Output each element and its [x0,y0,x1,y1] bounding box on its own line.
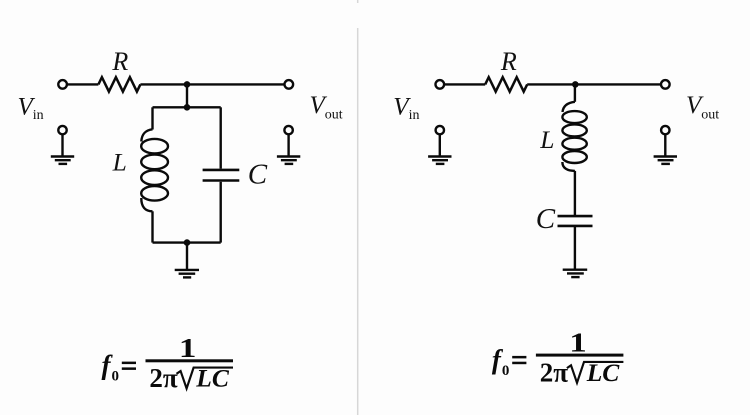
svg-text:0: 0 [502,363,510,379]
wire input to resistor (right) [445,83,486,85]
svg-text:C: C [536,203,556,235]
wire tank right vertical bottom [219,182,221,243]
wire tank bottom rail [153,241,221,243]
formula radical sign (left) [177,368,234,389]
terminal Vout right (open circle) [661,80,670,89]
node A junction dot (top) [184,81,191,88]
formula equals (right) [512,356,526,364]
svg-text:C: C [248,158,268,190]
wire node D down to inductor [574,84,576,101]
wire input to resistor [67,83,98,85]
svg-text:LC: LC [586,358,621,387]
svg-text:2π: 2π [540,357,569,387]
svg-text:LC: LC [195,364,230,393]
wire resistor to output terminal (right) [527,83,661,85]
inductor L (right, 4 loops) [562,102,586,171]
wire tank left vertical top [151,107,153,129]
node D junction dot (right circuit) [572,81,579,88]
svg-text:L: L [112,147,127,176]
node C junction dot (tank bottom) [184,239,191,246]
wire tank left vertical bottom [151,211,153,242]
formula fraction bar (right) [536,354,624,357]
capacitor C (left) plates [203,170,240,181]
ground (below tank) [175,270,199,278]
ground (below series LC) [563,270,588,277]
wire resistor to output terminal [140,83,284,85]
wire tank top rail [153,106,221,108]
terminal Vin left (open circle) [58,80,67,89]
svg-text:1: 1 [569,327,587,357]
resistor R (left) zigzag [98,77,140,91]
formula equals (left) [122,362,136,370]
svg-text:L: L [539,125,554,154]
ground (below Vin left, with reference circle) [51,126,74,164]
svg-text:2π: 2π [149,363,178,393]
formula fraction bar (left) [146,359,234,362]
terminal Vout left (open circle) [285,80,294,89]
svg-text:1: 1 [179,333,197,363]
ground (below Vout right, with reference circle) [654,126,677,164]
inductor L (left, 4 loops) [141,129,168,211]
wire ground stem (right branch) [574,226,576,270]
wire tank right vertical top [219,107,221,168]
node B junction dot (tank top) [184,104,191,111]
formula radical sign (right) [567,362,624,383]
terminal Vin right (open circle) [436,80,445,89]
ground (below Vin right, with reference circle) [428,126,451,164]
page divider line [357,0,359,415]
svg-text:0: 0 [112,369,120,385]
svg-text:R: R [500,47,517,76]
ground (below Vout left, with reference circle) [277,126,300,164]
capacitor C (right) plates [558,216,593,226]
wire inductor to capacitor [574,171,576,216]
wire node A to node B [186,84,188,107]
wire ground stem (tank) [186,243,188,270]
resistor R (right) zigzag [485,77,527,91]
svg-text:R: R [111,47,128,76]
